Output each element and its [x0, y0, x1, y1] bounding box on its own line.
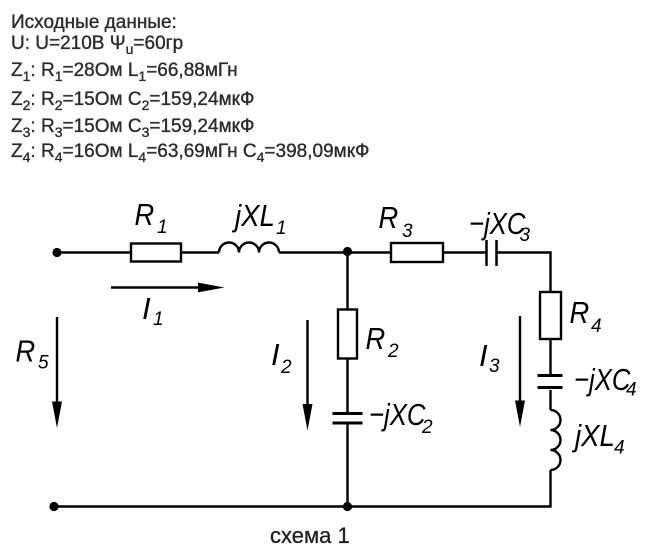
svg-text:I: I	[142, 291, 151, 326]
svg-text:−jXC: −jXC	[369, 398, 426, 433]
svg-text:5: 5	[38, 353, 49, 374]
svg-text:R: R	[366, 322, 386, 356]
svg-text:jXL: jXL	[571, 419, 615, 454]
svg-text:R: R	[379, 201, 399, 235]
svg-text:4: 4	[591, 316, 602, 337]
svg-text:4: 4	[626, 380, 637, 401]
svg-text:R: R	[570, 296, 590, 330]
svg-text:1: 1	[157, 217, 168, 238]
svg-text:1: 1	[276, 218, 287, 239]
svg-text:4: 4	[614, 438, 625, 459]
svg-text:3: 3	[520, 225, 531, 246]
svg-text:R: R	[135, 198, 155, 232]
svg-text:I: I	[271, 337, 280, 372]
svg-text:2: 2	[280, 357, 292, 378]
svg-text:jXL: jXL	[231, 199, 275, 234]
svg-text:2: 2	[421, 417, 433, 438]
svg-text:−jXC: −jXC	[469, 207, 526, 242]
svg-text:−jXC: −jXC	[574, 363, 631, 398]
svg-text:I: I	[479, 338, 488, 373]
svg-text:3: 3	[402, 221, 413, 242]
svg-text:3: 3	[489, 356, 500, 377]
svg-text:R: R	[16, 335, 36, 369]
svg-text:2: 2	[387, 341, 399, 362]
svg-text:1: 1	[153, 309, 164, 330]
